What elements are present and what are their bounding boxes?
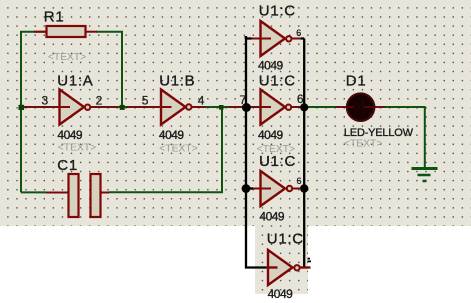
svg-text:<TEXT>: <TEXT>	[257, 144, 295, 155]
svg-text:D1: D1	[346, 73, 367, 90]
svg-text:4049: 4049	[258, 58, 284, 72]
svg-text:2: 2	[96, 93, 103, 107]
svg-text:5: 5	[142, 93, 149, 107]
svg-text:4: 4	[198, 93, 205, 107]
svg-text:LED-YELLOW: LED-YELLOW	[344, 127, 414, 139]
svg-text:<TEXT>: <TEXT>	[159, 144, 197, 155]
svg-text:4049: 4049	[57, 128, 83, 142]
svg-text:U1:A: U1:A	[57, 72, 93, 89]
svg-text:7: 7	[240, 93, 247, 107]
svg-text:U1:C: U1:C	[259, 3, 296, 20]
svg-text:4049: 4049	[258, 128, 284, 142]
svg-text:U1:C: U1:C	[259, 72, 296, 89]
svg-text:<TEXT>: <TEXT>	[58, 142, 96, 153]
svg-text:6: 6	[297, 176, 302, 186]
svg-text:4049: 4049	[259, 209, 285, 223]
svg-text:4049: 4049	[159, 128, 185, 142]
svg-text:U1:B: U1:B	[159, 72, 195, 89]
svg-text:6: 6	[297, 92, 304, 106]
svg-text:<TEXT>: <TEXT>	[344, 138, 382, 149]
svg-text:U1:C: U1:C	[267, 231, 304, 248]
svg-text:4049: 4049	[268, 287, 294, 301]
svg-text:<TEXT>: <TEXT>	[48, 52, 86, 63]
svg-text:C1: C1	[57, 157, 78, 174]
svg-text:U1:C: U1:C	[259, 153, 296, 170]
svg-text:R1: R1	[44, 8, 65, 25]
svg-text:6: 6	[296, 28, 301, 38]
svg-text:3: 3	[42, 93, 49, 107]
